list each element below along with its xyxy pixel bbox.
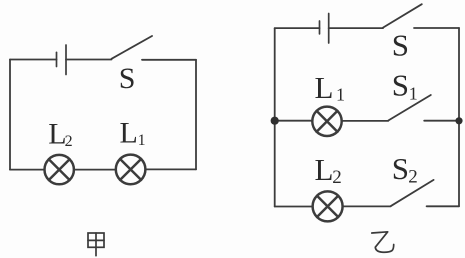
svg-text:1: 1: [336, 85, 345, 105]
svg-text:S: S: [392, 151, 409, 186]
wire switch S2 right contact: [427, 205, 459, 207]
svg-text:S: S: [392, 68, 409, 103]
node junction right: [455, 117, 462, 124]
wire battery to switch S: [329, 27, 383, 29]
battery B1 short plate (negative): [56, 52, 58, 66]
battery B2 short plate (negative): [319, 21, 321, 34]
svg-text:S: S: [119, 62, 136, 95]
svg-text:S: S: [392, 28, 409, 63]
battery B1 long plate (positive): [65, 45, 67, 75]
wire middle branch left: [275, 120, 313, 122]
switch S1 blade: [388, 95, 431, 121]
lamp L2: [45, 155, 74, 184]
wire bottom branch left: [275, 206, 313, 208]
svg-text:1: 1: [138, 132, 146, 149]
wire lamp L1 to switch S1: [342, 120, 389, 122]
wire right-circuit right side: [458, 28, 460, 206]
wire battery to switch S: [66, 59, 112, 61]
svg-text:L: L: [120, 117, 138, 150]
switch S blade (right circuit): [383, 4, 422, 27]
svg-text:2: 2: [65, 133, 73, 150]
lamp L1: [116, 155, 146, 185]
svg-text:2: 2: [408, 167, 418, 188]
svg-text:L: L: [315, 152, 334, 187]
node junction left: [271, 117, 279, 125]
wire left-circuit bottom right: [145, 168, 196, 170]
wire right-circuit top to battery: [275, 27, 320, 29]
wire left-circuit left side: [9, 60, 11, 170]
wire left-circuit right side: [195, 60, 197, 170]
svg-text:2: 2: [332, 167, 342, 188]
wire left-circuit bottom left: [10, 169, 45, 171]
lamp L1 (right circuit): [312, 107, 341, 136]
caption 甲 (jia): [88, 233, 104, 256]
battery B2 long plate (positive): [328, 14, 330, 44]
wire left-circuit top-left segment: [10, 59, 57, 61]
wire switch S right contact: [142, 59, 196, 61]
svg-text:1: 1: [409, 84, 418, 104]
switch S blade: [112, 36, 153, 59]
caption 乙 (yi): [372, 232, 394, 252]
wire right-circuit left side: [274, 28, 276, 206]
wire lamp L2 to switch S2: [343, 205, 391, 207]
wire switch S1 right contact: [424, 120, 459, 122]
wire switch S right contact (right circuit): [414, 27, 459, 29]
wire between lamps: [74, 169, 116, 171]
switch S2 blade: [391, 180, 434, 206]
svg-text:L: L: [315, 70, 334, 105]
lamp L2 (right circuit): [313, 191, 343, 221]
